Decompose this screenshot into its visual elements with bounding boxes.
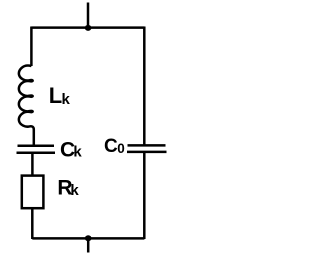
svg-text:k: k [70, 182, 79, 199]
svg-text:L: L [49, 83, 62, 108]
svg-text:k: k [73, 144, 82, 161]
svg-text:k: k [62, 91, 71, 108]
svg-text:0: 0 [117, 141, 125, 156]
svg-text:C: C [104, 136, 118, 157]
